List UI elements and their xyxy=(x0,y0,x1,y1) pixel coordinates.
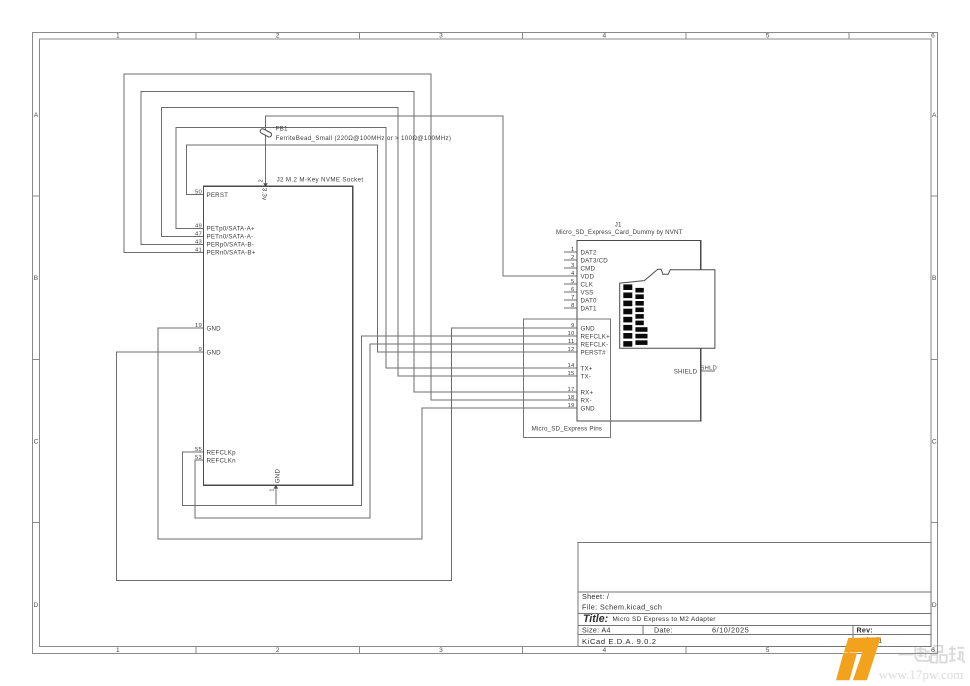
svg-text:SHIELD: SHIELD xyxy=(674,368,698,375)
svg-text:FerriteBead_Small (220Ω@100MHz: FerriteBead_Small (220Ω@100MHz or > 100Ω… xyxy=(276,135,452,142)
svg-text:GND: GND xyxy=(581,325,596,332)
svg-text:11: 11 xyxy=(568,339,575,345)
svg-text:C: C xyxy=(34,439,39,446)
svg-text:B: B xyxy=(34,275,39,282)
svg-text:TX-: TX- xyxy=(581,373,592,380)
svg-text:PERST#: PERST# xyxy=(581,349,607,356)
svg-text:3: 3 xyxy=(571,263,575,269)
svg-text:9: 9 xyxy=(571,323,574,329)
svg-text:7: 7 xyxy=(571,295,574,301)
svg-text:12: 12 xyxy=(568,347,575,353)
svg-text:47: 47 xyxy=(195,232,202,238)
svg-text:C: C xyxy=(932,439,937,446)
svg-text:SHLD: SHLD xyxy=(701,366,718,372)
svg-text:6: 6 xyxy=(931,647,935,654)
svg-text:REFCLKp: REFCLKp xyxy=(207,449,237,456)
svg-text:CMD: CMD xyxy=(581,265,596,272)
svg-text:www.17pw.com: www.17pw.com xyxy=(879,667,964,682)
svg-text:GND: GND xyxy=(275,469,282,484)
svg-text:49: 49 xyxy=(195,224,202,230)
svg-text:2: 2 xyxy=(276,33,280,40)
svg-text:6: 6 xyxy=(931,33,935,40)
svg-text:4: 4 xyxy=(602,647,606,654)
svg-text:5: 5 xyxy=(766,647,770,654)
svg-text:PERST: PERST xyxy=(207,192,229,199)
svg-text:18: 18 xyxy=(568,395,575,401)
svg-text:VDD: VDD xyxy=(581,273,595,280)
svg-text:PETp0/SATA-A+: PETp0/SATA-A+ xyxy=(207,226,255,233)
svg-text:6: 6 xyxy=(571,287,575,293)
svg-text:Title:: Title: xyxy=(583,613,608,625)
svg-text:4: 4 xyxy=(571,271,575,277)
svg-text:2: 2 xyxy=(571,255,574,261)
svg-text:Date:: Date: xyxy=(654,626,673,635)
svg-text:5: 5 xyxy=(571,279,575,285)
svg-text:43: 43 xyxy=(195,240,202,246)
svg-text:55: 55 xyxy=(195,447,202,453)
svg-text:FB1: FB1 xyxy=(276,126,288,133)
svg-text:DAT1: DAT1 xyxy=(581,305,598,312)
svg-text:10: 10 xyxy=(568,331,575,337)
svg-text:6/10/2025: 6/10/2025 xyxy=(712,626,749,635)
svg-text:19: 19 xyxy=(568,403,575,409)
svg-text:REFCLK+: REFCLK+ xyxy=(581,333,611,340)
svg-text:KiCad E.D.A. 9.0.2: KiCad E.D.A. 9.0.2 xyxy=(582,637,657,646)
svg-text:Micro_SD_Express Pins: Micro_SD_Express Pins xyxy=(532,426,603,433)
svg-text:53: 53 xyxy=(195,455,202,461)
svg-text:A: A xyxy=(932,112,937,119)
svg-text:REFCLK-: REFCLK- xyxy=(581,341,609,348)
svg-text:REFCLKn: REFCLKn xyxy=(207,457,237,464)
svg-text:3.3v: 3.3v xyxy=(260,188,267,201)
svg-text:File: Schem.kicad_sch: File: Schem.kicad_sch xyxy=(582,603,662,612)
svg-text:GND: GND xyxy=(207,325,222,332)
svg-text:VSS: VSS xyxy=(581,289,594,296)
svg-text:GND: GND xyxy=(581,405,596,412)
svg-text:PETn0/SATA-A-: PETn0/SATA-A- xyxy=(207,234,254,241)
svg-text:PERp0/SATA-B-: PERp0/SATA-B- xyxy=(207,242,254,249)
svg-text:Micro_SD_Express_Card_Dummy by: Micro_SD_Express_Card_Dummy by NVNT xyxy=(556,229,683,236)
svg-text:41: 41 xyxy=(195,248,202,254)
svg-text:4: 4 xyxy=(602,33,606,40)
svg-text:3: 3 xyxy=(439,33,443,40)
svg-text:CLK: CLK xyxy=(581,281,594,288)
svg-text:Sheet: /: Sheet: / xyxy=(582,592,609,601)
svg-text:Rev:: Rev: xyxy=(857,626,873,635)
svg-text:50: 50 xyxy=(195,190,202,196)
svg-text:2: 2 xyxy=(259,179,265,182)
svg-text:J2 M.2 M-Key NVME Socket: J2 M.2 M-Key NVME Socket xyxy=(277,177,364,184)
svg-text:1: 1 xyxy=(270,488,276,491)
svg-text:3: 3 xyxy=(439,647,443,654)
svg-text:19: 19 xyxy=(195,323,202,329)
svg-text:15: 15 xyxy=(568,371,575,377)
svg-text:5: 5 xyxy=(766,33,770,40)
svg-text:DAT3/CD: DAT3/CD xyxy=(581,257,609,264)
svg-text:D: D xyxy=(932,602,937,609)
svg-text:B: B xyxy=(932,275,937,282)
svg-text:DAT0: DAT0 xyxy=(581,297,598,304)
svg-text:RX+: RX+ xyxy=(581,389,594,396)
svg-text:J1: J1 xyxy=(615,222,622,229)
svg-text:D: D xyxy=(34,602,39,609)
svg-text:TX+: TX+ xyxy=(581,365,593,372)
svg-text:9: 9 xyxy=(199,347,202,353)
svg-text:Micro SD Express to M2 Adapter: Micro SD Express to M2 Adapter xyxy=(613,616,717,623)
svg-text:2: 2 xyxy=(276,647,280,654)
svg-text:14: 14 xyxy=(568,363,575,369)
svg-text:GND: GND xyxy=(207,349,222,356)
svg-text:1: 1 xyxy=(571,247,574,253)
svg-text:8: 8 xyxy=(571,303,575,309)
svg-text:DAT2: DAT2 xyxy=(581,249,598,256)
svg-text:Size: A4: Size: A4 xyxy=(582,626,611,635)
svg-text:1: 1 xyxy=(116,647,120,654)
svg-text:A: A xyxy=(34,112,39,119)
svg-text:17: 17 xyxy=(568,387,575,393)
svg-text:RX-: RX- xyxy=(581,397,592,404)
svg-text:1: 1 xyxy=(116,33,120,40)
svg-text:PERn0/SATA-B+: PERn0/SATA-B+ xyxy=(207,250,256,257)
